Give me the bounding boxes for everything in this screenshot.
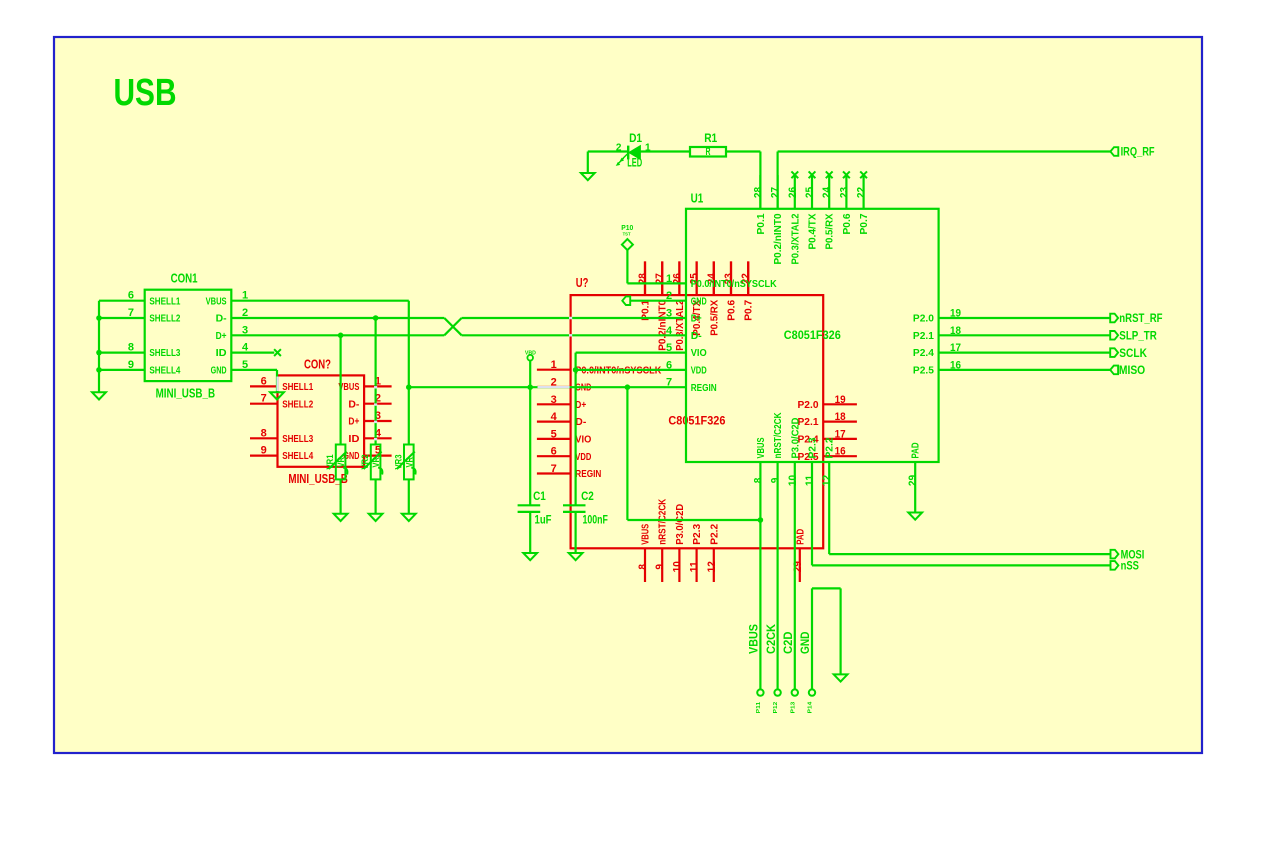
svg-text:SHELL2: SHELL2: [282, 398, 313, 410]
svg-text:5: 5: [666, 342, 672, 354]
svg-text:3: 3: [666, 308, 672, 320]
svg-text:PAD: PAD: [910, 442, 922, 458]
svg-text:P0.6: P0.6: [841, 213, 853, 234]
svg-text:P0.7: P0.7: [743, 300, 755, 321]
svg-text:P3.0/C2D: P3.0/C2D: [674, 503, 686, 544]
svg-text:2: 2: [666, 290, 672, 302]
svg-text:CON?: CON?: [304, 357, 331, 371]
svg-text:VIO: VIO: [575, 434, 591, 446]
svg-text:P2.1: P2.1: [913, 330, 934, 342]
svg-text:P2.2: P2.2: [824, 437, 836, 458]
svg-text:nRST/C2CK: nRST/C2CK: [657, 498, 669, 544]
svg-text:SCLK: SCLK: [1119, 348, 1147, 360]
svg-text:29: 29: [792, 561, 804, 572]
svg-text:P0.7: P0.7: [858, 213, 870, 234]
svg-text:P0.0/INT0/nSYSCLK: P0.0/INT0/nSYSCLK: [691, 278, 777, 290]
svg-text:P13: P13: [791, 702, 797, 714]
svg-text:8: 8: [752, 478, 764, 484]
svg-text:26: 26: [787, 187, 799, 198]
svg-text:VR1: VR1: [325, 454, 336, 470]
svg-text:VBUS: VBUS: [640, 524, 652, 545]
svg-text:P0.4/TX: P0.4/TX: [807, 214, 819, 250]
svg-text:TST: TST: [623, 232, 631, 237]
svg-text:8: 8: [637, 564, 649, 570]
svg-text:C2: C2: [581, 489, 594, 503]
svg-text:VIO: VIO: [691, 347, 707, 359]
svg-text:VBUS: VBUS: [755, 438, 767, 459]
svg-text:VR: VR: [404, 457, 415, 468]
svg-text:1: 1: [666, 273, 672, 285]
svg-text:nSS: nSS: [1121, 561, 1140, 573]
svg-text:ID: ID: [216, 347, 227, 359]
svg-text:GND: GND: [211, 365, 227, 377]
svg-text:R: R: [706, 146, 711, 158]
svg-text:D1: D1: [629, 131, 642, 145]
svg-text:29: 29: [907, 475, 919, 486]
svg-text:nRST_RF: nRST_RF: [1119, 313, 1162, 325]
svg-text:23: 23: [838, 187, 850, 198]
svg-text:P2.3: P2.3: [807, 437, 819, 458]
svg-text:MOSI: MOSI: [1121, 549, 1145, 561]
svg-text:D-: D-: [691, 330, 702, 342]
svg-text:C8051F326: C8051F326: [784, 328, 841, 342]
svg-text:C2CK: C2CK: [766, 623, 778, 654]
svg-text:2: 2: [616, 142, 622, 153]
svg-text:D+: D+: [348, 416, 359, 428]
svg-text:P2.2: P2.2: [708, 524, 720, 545]
svg-text:11: 11: [689, 561, 701, 572]
svg-text:VDD: VDD: [691, 365, 707, 377]
svg-text:24: 24: [821, 186, 833, 198]
svg-text:MISO: MISO: [1119, 365, 1145, 377]
svg-text:nRST/C2CK: nRST/C2CK: [772, 412, 784, 458]
svg-text:GND: GND: [691, 295, 707, 307]
svg-text:P0.5/RX: P0.5/RX: [824, 214, 836, 250]
svg-text:D+: D+: [575, 399, 586, 411]
svg-text:MINI_USB_B: MINI_USB_B: [156, 387, 216, 401]
svg-text:28: 28: [752, 187, 764, 198]
svg-text:27: 27: [770, 187, 782, 198]
svg-text:D-: D-: [216, 313, 227, 325]
svg-text:SHELL1: SHELL1: [282, 381, 313, 393]
svg-text:P14: P14: [808, 701, 814, 714]
svg-text:VBUS: VBUS: [749, 624, 761, 654]
svg-text:6: 6: [666, 359, 672, 371]
svg-text:10: 10: [671, 561, 683, 572]
svg-text:P2.3: P2.3: [691, 524, 703, 545]
svg-text:4: 4: [666, 325, 673, 337]
svg-text:D-: D-: [575, 416, 586, 428]
svg-text:PAD: PAD: [794, 528, 806, 544]
svg-text:P0.2/nINT0: P0.2/nINT0: [772, 213, 784, 264]
svg-text:P11: P11: [756, 702, 762, 714]
svg-text:SHELL2: SHELL2: [149, 313, 180, 325]
svg-text:12: 12: [706, 561, 718, 572]
svg-text:P12: P12: [773, 702, 779, 714]
svg-text:D-: D-: [348, 398, 359, 410]
svg-text:REGIN: REGIN: [691, 382, 717, 394]
svg-text:9: 9: [654, 564, 666, 570]
svg-text:GND: GND: [800, 632, 812, 655]
svg-text:P2.4: P2.4: [913, 347, 934, 359]
svg-text:CON1: CON1: [171, 272, 198, 286]
svg-text:SHELL4: SHELL4: [149, 365, 180, 377]
svg-text:U?: U?: [576, 276, 589, 290]
svg-text:SHELL4: SHELL4: [282, 450, 313, 462]
svg-text:REGIN: REGIN: [575, 468, 601, 480]
svg-text:C1: C1: [533, 489, 546, 503]
svg-text:D+: D+: [216, 330, 227, 342]
svg-text:VBUS: VBUS: [206, 295, 227, 307]
svg-text:VDD: VDD: [575, 451, 591, 463]
svg-text:SHELL1: SHELL1: [149, 295, 180, 307]
svg-text:P2.5: P2.5: [913, 365, 934, 377]
svg-text:SHELL3: SHELL3: [282, 433, 313, 445]
svg-text:22: 22: [856, 187, 868, 198]
svg-text:9: 9: [770, 478, 782, 484]
svg-text:7: 7: [666, 377, 672, 389]
svg-text:100nF: 100nF: [583, 512, 608, 526]
svg-text:P10: P10: [621, 223, 633, 232]
svg-text:IRQ_RF: IRQ_RF: [1121, 146, 1155, 158]
svg-text:ID: ID: [348, 433, 359, 445]
svg-text:USB: USB: [114, 72, 177, 114]
svg-text:VBD: VBD: [525, 351, 536, 357]
svg-text:11: 11: [804, 475, 816, 486]
svg-text:P0.3/XTAL2: P0.3/XTAL2: [789, 213, 801, 264]
svg-text:C8051F326: C8051F326: [668, 414, 725, 428]
svg-text:1uF: 1uF: [535, 512, 552, 526]
svg-text:P2.0: P2.0: [798, 399, 819, 411]
svg-text:P0.3/XTAL2: P0.3/XTAL2: [674, 300, 686, 351]
svg-text:C2D: C2D: [783, 632, 795, 655]
svg-text:VR: VR: [336, 457, 347, 468]
svg-text:R1: R1: [704, 131, 717, 145]
svg-text:VR3: VR3: [393, 455, 404, 470]
svg-text:D+: D+: [691, 313, 702, 325]
svg-text:P3.0/C2D: P3.0/C2D: [789, 417, 801, 458]
svg-text:10: 10: [787, 475, 799, 486]
svg-text:SLP_TR: SLP_TR: [1119, 331, 1157, 343]
svg-text:P2.0: P2.0: [913, 313, 934, 325]
svg-text:U1: U1: [691, 191, 704, 205]
svg-text:P0.6: P0.6: [726, 300, 738, 321]
svg-text:P0.5/RX: P0.5/RX: [708, 300, 720, 336]
svg-text:SHELL3: SHELL3: [149, 347, 180, 359]
svg-text:12: 12: [821, 475, 833, 486]
svg-text:P0.1: P0.1: [755, 213, 767, 234]
svg-text:VR: VR: [371, 457, 382, 468]
svg-text:LED: LED: [627, 156, 642, 170]
svg-text:25: 25: [804, 187, 816, 198]
svg-text:VR2: VR2: [360, 455, 371, 470]
